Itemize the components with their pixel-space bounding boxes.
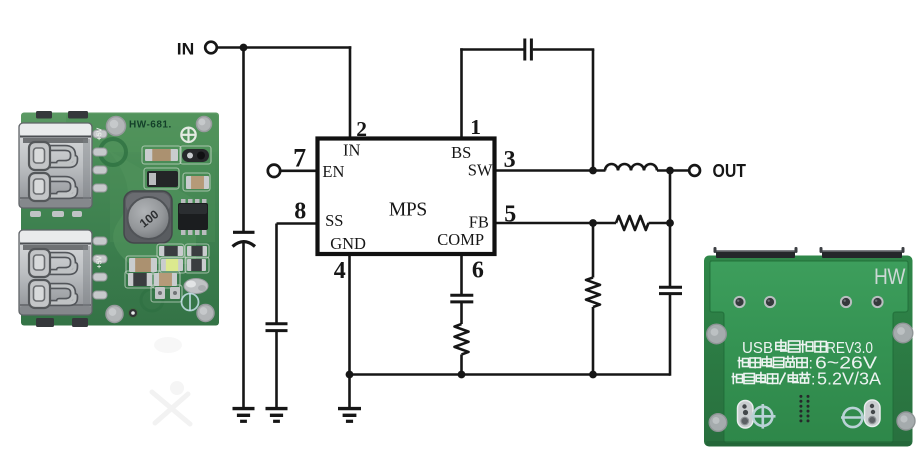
svg-text:COMP: COMP — [437, 230, 484, 249]
svg-text:FB: FB — [469, 212, 489, 231]
svg-text:HW: HW — [874, 264, 906, 289]
svg-text::: : — [809, 356, 813, 373]
svg-text:2: 2 — [356, 117, 367, 141]
svg-text::: : — [811, 372, 815, 389]
svg-text:IN: IN — [343, 141, 360, 160]
svg-text:8: 8 — [294, 199, 306, 225]
svg-text:7: 7 — [293, 143, 306, 172]
svg-text:SS: SS — [325, 211, 343, 230]
svg-text:USB: USB — [742, 340, 773, 357]
svg-text:3: 3 — [504, 147, 516, 173]
svg-text:GND: GND — [330, 234, 366, 253]
svg-text:5.2V/3A: 5.2V/3A — [817, 369, 881, 389]
svg-text:IN: IN — [177, 39, 195, 58]
svg-text:HW-681.: HW-681. — [129, 120, 172, 131]
svg-text:6: 6 — [472, 257, 484, 283]
svg-text:1: 1 — [470, 115, 481, 139]
svg-text:OUT: OUT — [713, 161, 747, 181]
svg-text:+5V: +5V — [97, 255, 104, 268]
svg-text:MPS: MPS — [389, 200, 427, 221]
svg-text:SW: SW — [468, 160, 493, 179]
svg-text:5: 5 — [504, 202, 516, 228]
svg-text:EN: EN — [322, 162, 344, 181]
svg-text:4: 4 — [334, 258, 346, 284]
svg-text:+5V: +5V — [97, 127, 104, 140]
